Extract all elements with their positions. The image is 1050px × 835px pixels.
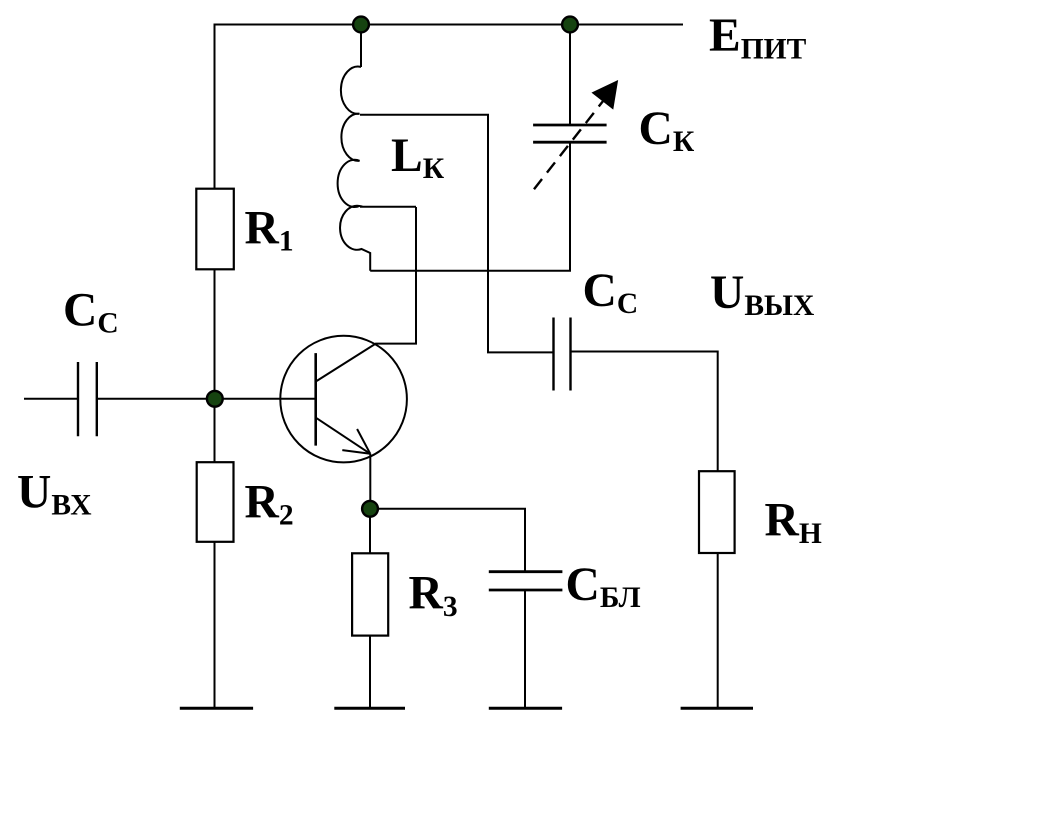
wire: R1 bottom to base node <box>214 269 216 462</box>
wire: input lead Uвх <box>24 398 78 400</box>
wire: emitter node to R3 <box>369 509 371 554</box>
capacitor CК variable arrow shaft <box>534 96 607 189</box>
ground (under R3) <box>334 707 405 710</box>
ground (under R2) <box>180 707 253 710</box>
wire: emitter down to node <box>369 454 371 509</box>
wire: CК branch bottom <box>569 142 571 271</box>
resistor R1 <box>196 189 234 270</box>
wire: RН to ground <box>717 553 719 708</box>
resistor R2 <box>197 462 234 542</box>
transistor VT1 collector lead <box>317 207 416 381</box>
node: base junction <box>207 391 223 407</box>
node: supply junction right <box>562 17 578 33</box>
capacitor CБЛ top plate <box>489 570 563 573</box>
capacitor CC (input coupling) right plate <box>96 362 98 436</box>
wire: cap to base node <box>97 398 316 400</box>
transistor VT1 emitter lead <box>317 418 371 454</box>
capacitor CК top plate <box>533 124 607 127</box>
wire: emitter node to CБЛ <box>370 509 525 572</box>
wire: coil bottom rail <box>370 270 571 272</box>
resistor RН <box>699 471 735 553</box>
transistor VT1 circle <box>280 336 407 463</box>
transistor VT1 base bar <box>314 353 317 446</box>
wire: R3 to ground <box>369 636 371 708</box>
node: supply junction left <box>353 17 369 33</box>
wire: top supply rail Eпит <box>214 24 684 26</box>
ground (under RН) <box>681 707 753 710</box>
ground (under CБЛ) <box>489 707 562 710</box>
wire: left branch down to R1 <box>214 25 216 190</box>
capacitor CК variable arrow head <box>592 81 617 109</box>
capacitor CК bottom plate <box>533 141 607 144</box>
transistor VT1 emitter arrow barb upper <box>357 429 370 454</box>
transistor VT1 emitter arrow barb lower <box>342 450 370 454</box>
node: emitter junction <box>362 501 378 517</box>
capacitor CБЛ bottom plate <box>489 589 563 592</box>
capacitor CC (input coupling) left plate <box>77 362 79 436</box>
wire: coil tap 2 <box>360 206 416 208</box>
wire: R2 to ground <box>214 542 216 708</box>
capacitor CC (output coupling) right plate <box>569 318 571 391</box>
capacitor CC (output coupling) left plate <box>552 318 554 391</box>
wire: coil tap 1 <box>360 115 554 353</box>
wire: CБЛ to ground <box>524 590 526 708</box>
resistor R3 <box>352 553 388 635</box>
wire: CК branch top <box>569 25 571 126</box>
inductor LК coil <box>338 67 371 271</box>
wire: junction to coil top <box>360 25 362 68</box>
wire: output cap to RН <box>571 352 718 472</box>
